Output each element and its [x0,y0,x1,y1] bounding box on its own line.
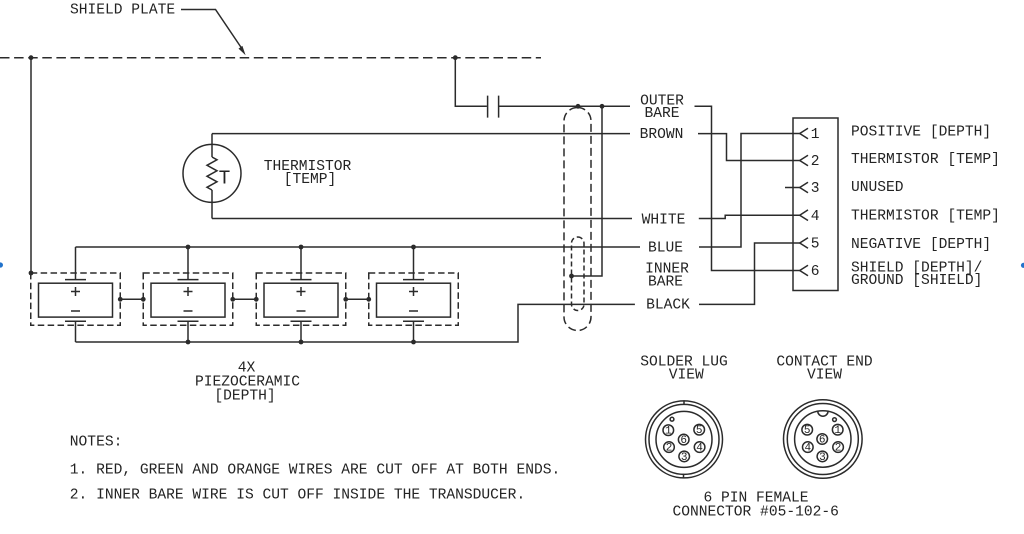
svg-text:[TEMP]: [TEMP] [284,172,337,188]
solder lug pin 3 [679,451,690,462]
svg-text:5: 5 [804,425,811,437]
svg-text:VIEW: VIEW [669,368,704,384]
solder lug pin 1 [663,425,674,436]
piezo 4 bottom electrode [403,321,424,342]
svg-text:4: 4 [696,443,703,455]
pin 2 contact arrow [800,155,808,166]
svg-text:2: 2 [811,154,820,170]
junction dot top bus at piezo 3 [299,245,304,250]
junction dot bottom bus at piezo 2 [186,340,191,345]
solder lug pin 4 [694,442,705,453]
piezo 1 top electrode [65,247,86,280]
piezo 3 bottom electrode [291,321,312,342]
svg-text:6: 6 [819,435,826,447]
piezoceramic element 2 dashed enclosure [143,273,233,325]
piezo 2 bottom electrode [178,321,199,342]
svg-text:3: 3 [811,181,820,197]
wire: piezo negative bus up to BLACK label [76,304,635,342]
solder lug view connector face [646,401,723,478]
svg-text:1: 1 [665,426,672,438]
svg-text:POSITIVE [DEPTH]: POSITIVE [DEPTH] [851,125,991,141]
piezoceramic element 4 dashed enclosure [369,273,459,325]
contact end keyway notch [818,411,828,416]
leader arrowhead [239,46,246,55]
thermistor body circle [183,144,241,202]
contact end pin 1 [832,424,843,435]
capacitor C1 plates [488,96,499,118]
pin 1 contact arrow [800,128,808,139]
svg-text:5: 5 [696,425,703,437]
svg-text:NEGATIVE [DEPTH]: NEGATIVE [DEPTH] [851,237,991,253]
svg-text:4: 4 [811,209,820,225]
pin 5 contact arrow [800,238,808,249]
piezoceramic element 2 body [151,283,225,317]
solder lug keyway ticks [683,400,686,478]
contact end pin 5 [802,424,813,435]
svg-text:2. INNER BARE WIRE IS CUT OFF: 2. INNER BARE WIRE IS CUT OFF INSIDE THE… [70,488,525,504]
solder lug pin 5 [694,424,705,435]
junction dot: inner bare at inner jacket [569,274,574,279]
inner bare wire riser [572,106,603,276]
junction dot: shield drop [29,55,34,60]
leader line to shield plate [181,10,243,50]
wire: shield line down to capacitor [455,58,487,107]
junction dot: capacitor branch [453,55,458,60]
contact end pin 3 [817,451,828,462]
carousel arrow dot left [0,262,3,267]
svg-text:2: 2 [835,443,842,455]
cable inner jacket (dashed oval) [572,237,585,311]
link wire piezo 3 to piezo 4 [346,298,369,300]
piezo 3 minus mark [297,310,306,312]
pin 3 contact arrow [800,182,808,193]
link wire piezo 2 to piezo 3 [233,298,257,300]
wire: piezo positive bus to BLUE label [76,246,641,248]
junction dots on link 3 [343,297,348,302]
piezo 4 minus mark [409,310,418,312]
piezo 4 top electrode [403,247,424,280]
thermistor resistor zigzag [207,157,217,190]
piezo 4 plus mark [409,287,418,296]
pin 4 contact arrow [800,210,808,221]
piezo 3 top electrode [291,247,312,280]
svg-text:1: 1 [834,425,841,437]
pin 6 contact arrow [800,265,808,276]
wire: black to pin 5 [699,243,800,304]
piezoceramic element 3 dashed enclosure [256,273,346,325]
junction dots on link 2 [230,297,235,302]
wire: outer bare to pin 6 [695,106,800,270]
pin 3 unused stub [785,187,800,189]
solder lug orientation dot [670,417,674,421]
junction dot top bus at piezo 4 [411,245,416,250]
piezo 1 bottom electrode [65,321,86,342]
junction dot at piezo box corner [29,271,34,276]
contact end pin 4 [803,442,814,453]
wire: capacitor to OUTER BARE label [499,105,630,107]
piezo 3 plus mark [297,287,306,296]
piezoceramic element 1 dashed enclosure [31,273,121,325]
wire: white to pin 4 [699,215,800,218]
cable outer jacket (dashed oval) [564,108,591,331]
junction dots on link 1 [118,297,123,302]
svg-text:BLACK: BLACK [646,297,690,313]
piezo 2 plus mark [184,287,193,296]
piezoceramic element 3 body [264,283,338,317]
svg-text:BLUE: BLUE [648,241,683,257]
svg-text:SHIELD PLATE: SHIELD PLATE [70,3,175,19]
piezo 2 top electrode [178,247,199,280]
junction dot: inner bare riser to outer bare [600,104,605,109]
svg-text:CONNECTOR #05-102-6: CONNECTOR #05-102-6 [672,505,838,521]
contact end view connector face [784,400,863,479]
svg-text:4: 4 [804,443,811,455]
piezoceramic element 4 body [377,283,451,317]
wire: thermistor top to BROWN label [212,133,630,135]
svg-text:BARE: BARE [648,275,683,291]
junction dot bottom bus at piezo 3 [299,340,304,345]
piezoceramic element 1 body [39,283,113,317]
junction dot: cable shield to outer bare [576,104,581,109]
wire: shield plate to piezo dashed box [30,58,32,273]
svg-text:T: T [219,167,231,189]
junction dot top bus at piezo 2 [186,245,191,250]
svg-text:6: 6 [811,264,820,280]
svg-text:UNUSED: UNUSED [851,180,904,196]
junction dot bottom bus at piezo 4 [411,340,416,345]
svg-text:5: 5 [811,237,820,253]
piezo 2 minus mark [184,310,193,312]
svg-text:GROUND [SHIELD]: GROUND [SHIELD] [851,273,982,289]
contact end pin 6 [817,434,828,445]
svg-text:WHITE: WHITE [642,213,686,229]
svg-text:2: 2 [666,443,673,455]
svg-text:1. RED, GREEN AND ORANGE WIRES: 1. RED, GREEN AND ORANGE WIRES ARE CUT O… [70,463,560,479]
wire: brown to pin 2 [698,134,800,161]
wire: thermistor bottom to WHITE label [212,218,632,220]
contact end orientation dot [833,418,837,422]
svg-text:THERMISTOR [TEMP]: THERMISTOR [TEMP] [851,152,1000,168]
solder lug pin 2 [664,442,675,453]
svg-text:NOTES:: NOTES: [70,435,123,451]
wire: blue to pin 1 [699,134,800,248]
link wire piezo 1 to piezo 2 [120,298,143,300]
solder lug pin 6 [678,434,689,445]
thermistor leads [211,134,213,219]
svg-text:3: 3 [819,452,826,464]
shield plate dashed line [0,57,541,59]
svg-text:6: 6 [680,435,687,447]
connector J1 body [793,118,838,291]
contact end pin 2 [833,442,844,453]
carousel arrow dot right [1021,263,1024,268]
svg-text:THERMISTOR [TEMP]: THERMISTOR [TEMP] [851,209,1000,225]
svg-text:VIEW: VIEW [807,368,842,384]
piezo 1 plus mark [71,287,80,296]
svg-text:BROWN: BROWN [640,127,684,143]
svg-text:BARE: BARE [644,106,679,122]
svg-text:1: 1 [811,127,820,143]
svg-text:3: 3 [681,452,688,464]
piezo 1 minus mark [71,310,80,312]
svg-text:[DEPTH]: [DEPTH] [214,389,275,405]
